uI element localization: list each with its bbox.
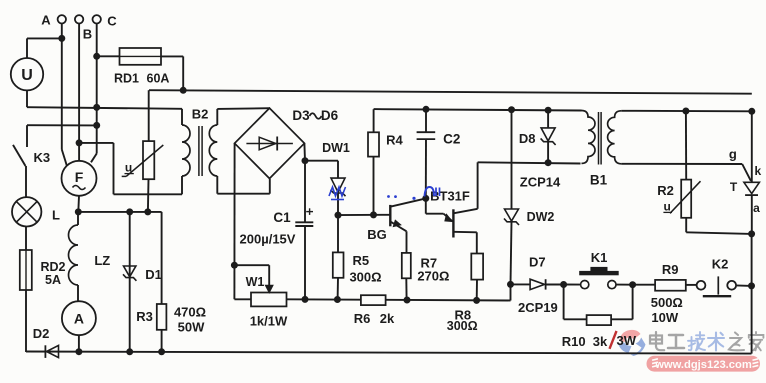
svg-text:C: C [107,14,117,29]
svg-text:C1: C1 [273,210,291,225]
svg-text:K3: K3 [33,150,50,165]
svg-text:www.dgjs123.com: www.dgjs123.com [654,359,752,371]
svg-text:D3: D3 [292,108,310,123]
svg-text:A: A [41,13,51,28]
svg-text:RD1: RD1 [114,72,139,86]
svg-text:B1: B1 [590,173,608,188]
svg-text:470Ω: 470Ω [174,305,206,320]
svg-text:50W: 50W [178,320,205,335]
svg-text:B2: B2 [192,107,209,122]
svg-text:DW1: DW1 [322,141,350,155]
svg-text:200µ/15V: 200µ/15V [240,232,296,247]
svg-text:k: k [755,164,762,178]
svg-text:ZCP14: ZCP14 [520,175,561,190]
svg-text:R5: R5 [352,253,369,268]
svg-text:270Ω: 270Ω [417,268,449,283]
svg-text:1k/1W: 1k/1W [250,314,288,329]
svg-text:R2: R2 [657,183,674,198]
svg-text:C2: C2 [443,132,460,147]
svg-text:U: U [21,67,33,84]
svg-text:R9: R9 [662,262,679,277]
svg-text:R6: R6 [354,311,371,326]
svg-text:BG: BG [367,227,387,242]
svg-text:D1: D1 [145,267,162,282]
svg-text:A: A [74,311,84,327]
svg-text:a: a [753,201,760,215]
svg-text:K2: K2 [712,257,729,272]
svg-text:W1: W1 [246,275,265,289]
svg-text:R3: R3 [136,309,153,324]
svg-text:DW2: DW2 [527,210,555,224]
svg-text:D6: D6 [321,108,339,123]
svg-text:300Ω: 300Ω [447,319,478,333]
svg-text:u: u [125,160,132,174]
svg-text:g: g [729,147,737,162]
svg-text:R10: R10 [562,334,586,349]
svg-text:R4: R4 [386,133,403,148]
svg-text:K1: K1 [591,250,608,265]
svg-text:D7: D7 [529,255,546,270]
svg-text:5A: 5A [45,273,61,287]
svg-text:D2: D2 [33,326,50,341]
svg-text:2CP19: 2CP19 [518,300,558,315]
svg-text:300Ω: 300Ω [349,270,381,285]
svg-text:F: F [75,169,84,185]
svg-text:500Ω: 500Ω [651,295,683,310]
svg-text:60A: 60A [147,72,170,86]
svg-text:u: u [664,200,671,214]
svg-text:2k: 2k [380,311,395,326]
svg-text:LZ: LZ [94,253,110,268]
svg-text:RD2: RD2 [40,260,65,274]
svg-text:B: B [83,27,92,42]
svg-text:D8: D8 [519,131,536,146]
svg-text:3W: 3W [617,333,637,348]
svg-text:10W: 10W [651,310,678,325]
svg-text:T: T [730,180,738,194]
svg-text:3k: 3k [593,334,608,349]
svg-text:L: L [52,208,60,223]
